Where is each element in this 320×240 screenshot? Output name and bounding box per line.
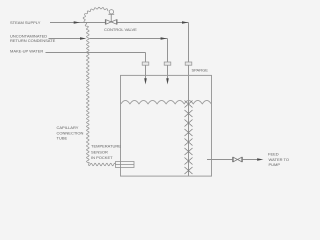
svg-text:WATER TO: WATER TO <box>269 157 290 162</box>
svg-text:TEMPERATURE: TEMPERATURE <box>91 144 121 149</box>
svg-text:IN POCKET: IN POCKET <box>91 155 113 160</box>
svg-text:SENSOR: SENSOR <box>91 149 108 154</box>
svg-text:PUMP: PUMP <box>269 162 281 167</box>
svg-text:RETURN CONDENSATE: RETURN CONDENSATE <box>10 38 56 43</box>
svg-text:TUBE: TUBE <box>57 135 68 140</box>
svg-text:FEED: FEED <box>268 151 279 156</box>
svg-text:CONTROL VALVE: CONTROL VALVE <box>104 27 137 32</box>
svg-text:SPARGE: SPARGE <box>192 67 209 72</box>
svg-text:STEAM SUPPLY: STEAM SUPPLY <box>10 20 41 25</box>
svg-text:MAKE-UP WATER: MAKE-UP WATER <box>10 48 43 53</box>
